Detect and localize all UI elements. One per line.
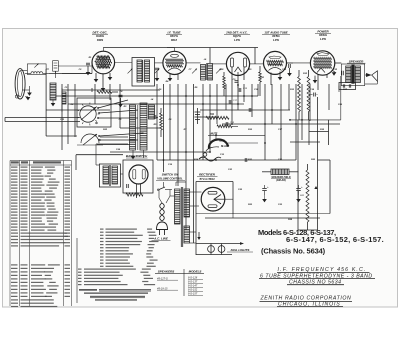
bleeder resistor — [306, 170, 309, 222]
IF transformer T1 — [132, 58, 155, 87]
power transformer — [175, 189, 181, 224]
svg-text:6-S-128: 6-S-128 — [188, 275, 198, 279]
svg-text:(DM-AR): (DM-AR) — [276, 179, 286, 182]
wire mesh top — [58, 65, 92, 67]
dial lamps — [208, 246, 215, 253]
cap left of V2 — [155, 67, 159, 69]
svg-text:LPS: LPS — [320, 37, 326, 41]
loop antenna — [15, 69, 25, 99]
resistor R12 — [217, 125, 232, 128]
cap left of V1 — [86, 62, 90, 64]
r.f. coil left — [50, 83, 56, 100]
tube V1 DET-OSC 6A8G — [92, 51, 115, 74]
box around dial tube — [123, 160, 153, 193]
osc coils — [130, 105, 136, 150]
tube V5 POWER 6K6G — [310, 51, 334, 75]
tube V2 IF 6K7G — [163, 51, 186, 74]
svg-text:49-18-15: 49-18-15 — [157, 286, 168, 290]
svg-text:DIAL LIGHTS: DIAL LIGHTS — [231, 248, 250, 252]
AC cord twisted — [160, 203, 165, 221]
contact list left rule — [76, 238, 78, 303]
svg-text:LPS: LPS — [273, 38, 279, 42]
small box top-right of mesh — [339, 83, 356, 90]
svg-text:KRS: KRS — [97, 38, 103, 42]
wires to pickup — [208, 134, 265, 136]
svg-text:(Chassis No. 5634): (Chassis No. 5634) — [261, 246, 326, 255]
resistor right of coils — [160, 113, 163, 130]
rectifier tube — [201, 187, 225, 211]
switch contact — [159, 187, 165, 190]
svg-text:VOLUME CONTROL: VOLUME CONTROL — [157, 177, 183, 181]
wires vol — [163, 182, 165, 187]
output transformer — [341, 64, 364, 86]
svg-text:6-S-147, 6-S-152, 6-S-157.: 6-S-147, 6-S-152, 6-S-157. — [286, 235, 384, 244]
svg-text:A.C. LINE: A.C. LINE — [153, 237, 169, 241]
right supply box — [290, 119, 341, 121]
box top volume area — [76, 154, 123, 156]
IF transformer T2 — [201, 65, 206, 81]
rect area box — [196, 181, 233, 183]
svg-text:6-S-137: 6-S-137 — [188, 279, 198, 283]
speaker — [366, 73, 372, 77]
contact list block — [100, 229, 104, 230]
res/caps under V3 — [223, 76, 226, 89]
terminal + gnd — [15, 95, 18, 98]
svg-text:BAND SWITCH: BAND SWITCH — [126, 154, 148, 158]
band switch wafer 2 — [81, 134, 99, 143]
svg-text:SPEAKER: SPEAKER — [349, 59, 364, 63]
small coil left of switch — [62, 92, 66, 104]
svg-text:SWITCH ON: SWITCH ON — [162, 173, 179, 177]
numbered list 2 — [78, 269, 82, 270]
svg-text:BLK: BLK — [220, 140, 225, 143]
interstage transformer — [99, 164, 120, 187]
svg-text:6-S-152: 6-S-152 — [188, 287, 198, 291]
svg-text:R11: R11 — [210, 114, 215, 116]
cap near switch — [119, 94, 123, 96]
wires interstage — [96, 164, 99, 166]
antenna coil — [31, 72, 34, 74]
res under V4 — [259, 72, 262, 82]
svg-text:LPS: LPS — [234, 38, 240, 42]
pickup arc — [209, 139, 228, 148]
svg-text:5Y3-G 5634: 5Y3-G 5634 — [199, 177, 215, 181]
svg-text:6-S-157: 6-S-157 — [188, 291, 198, 295]
bus junction dots — [185, 95, 187, 97]
tube V4 1st AUDIO 6F5G — [264, 51, 287, 74]
svg-text:49-127-S: 49-127-S — [157, 276, 168, 280]
svg-text:BLACK: BLACK — [221, 145, 230, 148]
parts table — [10, 161, 72, 307]
antenna trimmer box — [27, 64, 46, 75]
svg-text:+: + — [301, 185, 303, 189]
svg-text:MODELS: MODELS — [189, 270, 202, 274]
trimmer block B — [53, 61, 59, 71]
screen resistors — [298, 77, 301, 112]
B+ bus lines — [196, 213, 330, 215]
speaker field resistor — [271, 169, 289, 175]
filter caps — [264, 185, 266, 188]
svg-text:+: + — [267, 185, 269, 189]
AC plug — [157, 222, 168, 230]
tone cap — [341, 71, 343, 76]
dial tube — [129, 165, 148, 184]
pickup cable squiggle — [199, 157, 221, 161]
tube V3 2nd DET-AVC 6Q7G — [226, 52, 249, 75]
gnd under V5 — [314, 76, 316, 80]
resistor under dial tube — [126, 193, 143, 196]
ground ant — [29, 86, 31, 93]
electrolytic stack left — [197, 108, 199, 124]
note block — [79, 289, 97, 291]
band switch wafer 1 — [77, 98, 111, 127]
caps mid — [238, 88, 240, 92]
resistor above switch — [97, 91, 112, 94]
svg-text:6-S-147: 6-S-147 — [188, 283, 198, 287]
resistor R-det — [206, 116, 229, 119]
svg-text:SPEAKERS: SPEAKERS — [158, 270, 175, 274]
wafer1 contacts/fan — [98, 100, 128, 108]
wafer2 contacts/fan — [99, 133, 144, 136]
svg-text:RK2: RK2 — [171, 38, 177, 42]
